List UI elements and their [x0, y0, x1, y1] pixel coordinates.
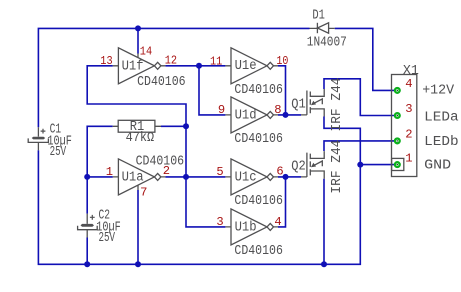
svg-text:8: 8: [274, 103, 281, 117]
svg-text:1N4007: 1N4007: [307, 35, 347, 50]
svg-text:U1d: U1d: [235, 108, 257, 123]
svg-text:14: 14: [140, 45, 152, 59]
svg-text:10: 10: [276, 54, 288, 68]
svg-text:U1f: U1f: [122, 59, 144, 74]
svg-text:3: 3: [216, 215, 223, 229]
svg-text:25V: 25V: [50, 145, 67, 160]
svg-text:2: 2: [405, 128, 412, 142]
svg-text:CD40106: CD40106: [234, 83, 283, 98]
svg-text:D1: D1: [312, 8, 325, 23]
svg-text:3: 3: [405, 102, 412, 116]
svg-text:CD40106: CD40106: [234, 132, 283, 147]
svg-text:Q2: Q2: [291, 160, 306, 175]
svg-text:U1a: U1a: [122, 171, 144, 186]
svg-text:7: 7: [140, 185, 147, 199]
svg-text:6: 6: [276, 164, 283, 178]
svg-text:5: 5: [216, 165, 223, 179]
svg-text:9: 9: [218, 103, 225, 117]
svg-text:1: 1: [106, 165, 113, 179]
svg-text:GND: GND: [424, 159, 451, 174]
svg-text:4: 4: [405, 77, 412, 91]
svg-text:25V: 25V: [99, 231, 116, 246]
svg-text:1: 1: [405, 151, 412, 165]
svg-text:12: 12: [165, 53, 177, 67]
svg-text:4: 4: [274, 215, 281, 229]
svg-text:13: 13: [100, 54, 112, 68]
svg-text:IRF Z44: IRF Z44: [330, 140, 345, 194]
svg-text:CD40106: CD40106: [234, 194, 283, 209]
svg-text:CD40106: CD40106: [137, 75, 186, 90]
svg-text:Q1: Q1: [291, 97, 306, 112]
svg-text:+12V: +12V: [422, 84, 455, 99]
svg-text:U1b: U1b: [235, 220, 257, 235]
svg-text:LEDa: LEDa: [424, 111, 459, 126]
svg-text:U1e: U1e: [235, 59, 257, 74]
svg-text:IRF Z44: IRF Z44: [330, 78, 345, 132]
svg-text:2: 2: [163, 164, 170, 178]
svg-text:47kΩ: 47kΩ: [126, 131, 155, 146]
svg-text:U1c: U1c: [235, 170, 257, 185]
svg-text:LEDb: LEDb: [424, 135, 459, 150]
svg-text:11: 11: [210, 55, 222, 69]
svg-text:CD40106: CD40106: [234, 244, 283, 259]
svg-text:CD40106: CD40106: [136, 154, 185, 169]
